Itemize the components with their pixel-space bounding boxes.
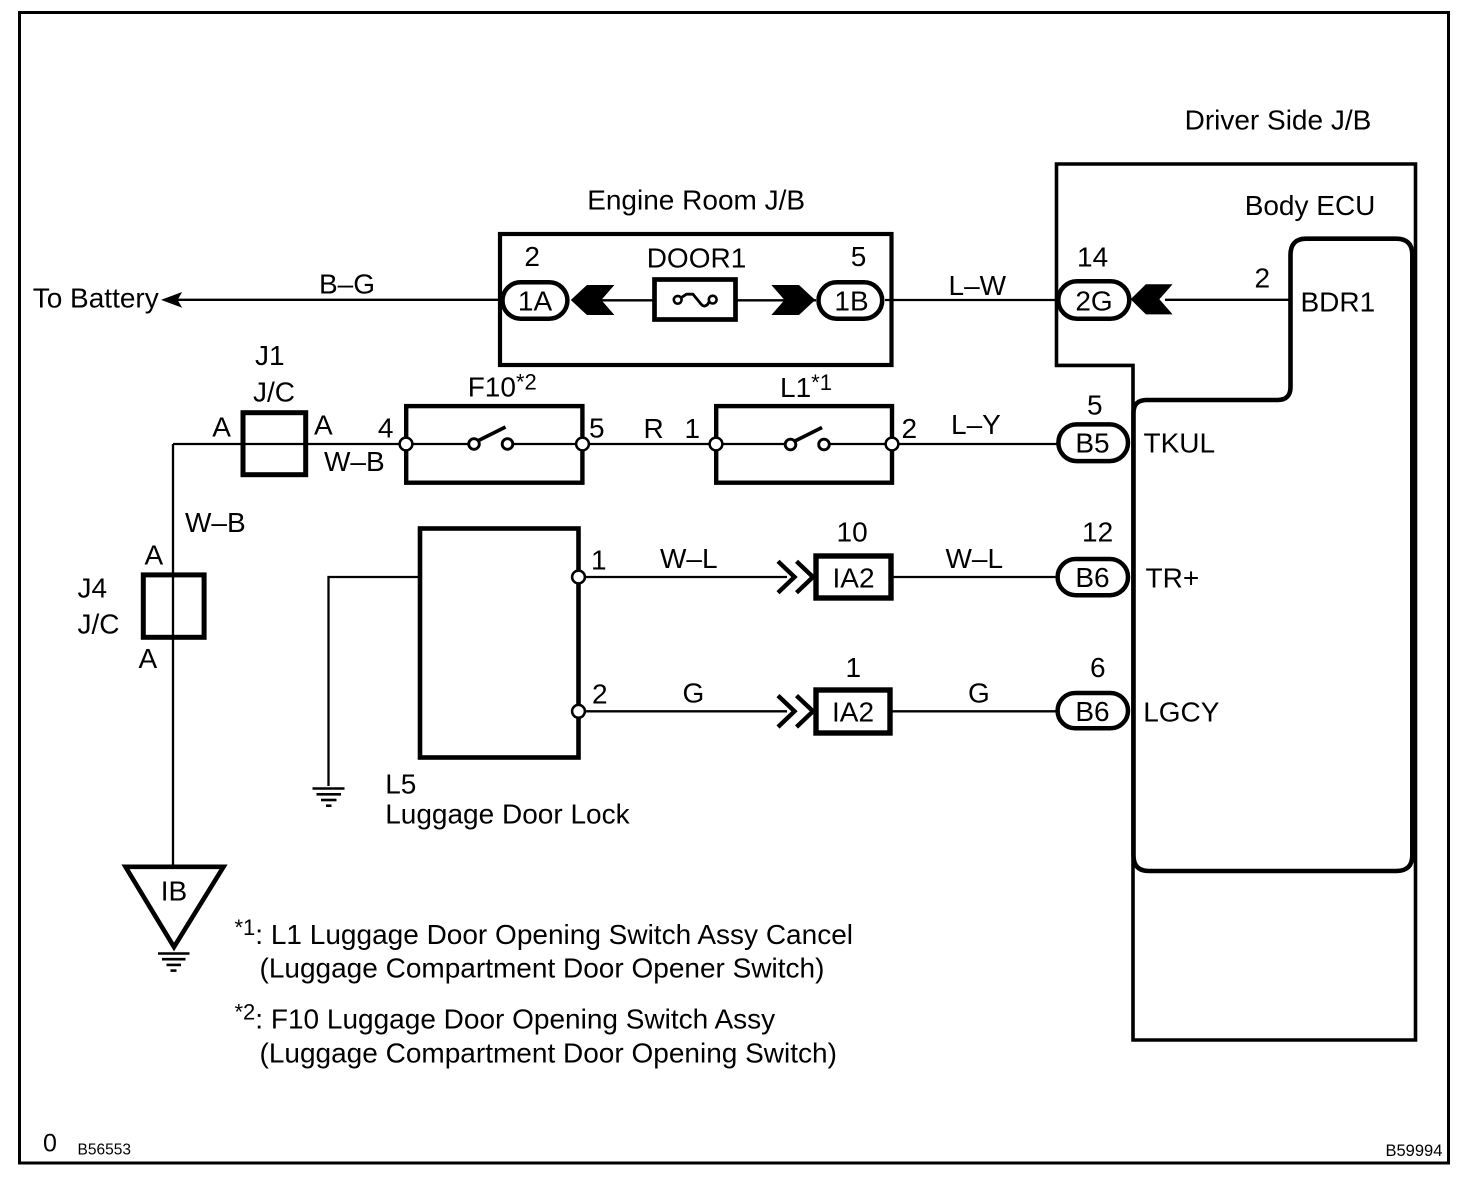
wire BDR1 to 2G [1165,299,1290,301]
wire R from F10 pin 5 to L1 pivot [508,443,791,445]
ground symbol under IB [158,954,190,971]
svg-text:2: 2 [1255,263,1271,294]
oval connector 1B [819,282,883,318]
Driver Side J/B box [1057,164,1416,1040]
node 2 on L1 [886,438,899,451]
svg-text:A: A [139,643,158,674]
connector IA2 box row 1 [816,556,891,598]
svg-text:IB: IB [161,876,187,907]
svg-text:L–W: L–W [949,270,1007,301]
oval connector 2G [1058,281,1129,318]
wire W-L from IA2 to B6 [892,576,1058,578]
wire fuse to 1B [735,299,816,301]
svg-text:To Battery: To Battery [33,283,159,314]
svg-text:TKUL: TKUL [1144,428,1216,459]
svg-text:J1: J1 [255,340,285,371]
wire L-Y from L1 pin 2 to B5 [824,443,1058,445]
svg-text:14: 14 [1077,242,1108,273]
switch L1 box [716,406,892,483]
wire 1B to 2G L-W [885,299,1058,301]
chevron arrows row 1 [778,561,813,592]
svg-text:W–B: W–B [324,446,385,477]
svg-text:B–G: B–G [319,269,375,300]
svg-text:1: 1 [846,652,862,683]
fuse element [682,294,711,306]
switch L1 pivots and blade [785,439,796,450]
svg-text:DOOR1: DOOR1 [647,242,747,273]
svg-text:BDR1: BDR1 [1301,287,1376,318]
svg-text:5: 5 [851,241,867,272]
IB triangle ground [126,867,224,947]
ground branch wire from L5 [329,577,421,786]
junction J4 J/C box [143,575,204,637]
svg-text:IA2: IA2 [832,563,874,594]
svg-text:J4: J4 [78,572,108,603]
connector IA2 box row 2 [816,690,890,733]
svg-text:1B: 1B [834,286,868,317]
wire corner to J1 to F10 pivot [173,443,474,445]
svg-text:2G: 2G [1075,286,1112,317]
svg-text:G: G [683,678,705,709]
svg-text:A: A [145,540,164,571]
svg-text:L–Y: L–Y [951,409,1001,440]
svg-text:0: 0 [43,1130,57,1158]
svg-text:*2: F10 Luggage Door Opening S: *2: F10 Luggage Door Opening Switch Assy [235,1000,776,1035]
svg-text:Engine Room J/B: Engine Room J/B [587,185,805,216]
svg-text:J/C: J/C [78,609,120,640]
fuse DOOR1 box [655,280,736,320]
svg-text:Body ECU: Body ECU [1245,190,1376,221]
svg-text:B6: B6 [1075,562,1109,593]
L5 luggage door lock box [420,529,579,758]
svg-text:2: 2 [592,679,608,710]
wire 1A to fuse [600,299,654,301]
wire W-L from L5 pin 1 to IA2 [579,576,788,578]
chevron arrows row 2 [778,696,813,727]
svg-text:(Luggage Compartment Door Open: (Luggage Compartment Door Opening Switch… [260,1038,837,1069]
connector arrow before 1B [771,285,815,315]
svg-text:G: G [968,678,990,709]
svg-text:4: 4 [378,413,394,444]
svg-text:10: 10 [837,517,868,548]
Body ECU outline U1 [1134,239,1413,871]
node 4 on F10 [400,438,413,451]
svg-text:LGCY: LGCY [1143,697,1220,728]
svg-text:*1: L1 Luggage Door Opening Sw: *1: L1 Luggage Door Opening Switch Assy … [235,915,854,950]
svg-text:1: 1 [685,413,701,444]
oval connector B5 [1058,424,1128,461]
svg-text:B59994: B59994 [1386,1142,1443,1160]
node 2 on L5 [572,705,585,718]
connector arrow at 2G [1131,284,1173,314]
node 1 on L5 [572,571,585,584]
switch F10 pivots and blade [469,439,480,450]
oval connector B6 row 1 [1058,559,1128,595]
junction J1 J/C box [243,413,306,475]
svg-text:W–L: W–L [660,543,718,574]
node 1 on L1 [710,438,723,451]
ground symbol at L5 [313,789,345,806]
svg-text:W–L: W–L [946,543,1004,574]
svg-text:J/C: J/C [253,377,295,408]
svg-text:B5: B5 [1075,428,1109,459]
oval connector 1A [503,282,568,318]
svg-text:(Luggage Compartment Door Open: (Luggage Compartment Door Opener Switch) [260,953,825,984]
svg-text:R: R [644,413,664,444]
svg-text:2: 2 [902,413,918,444]
svg-text:B6: B6 [1075,696,1109,727]
svg-text:12: 12 [1082,517,1113,548]
svg-text:2: 2 [524,241,540,272]
connector arrow at 1A [571,285,615,315]
oval connector B6 row 2 [1058,693,1128,728]
svg-text:1A: 1A [518,286,553,317]
svg-text:TR+: TR+ [1146,563,1200,594]
Engine Room J/B box [500,234,892,365]
svg-text:L5: L5 [385,769,416,800]
arrowhead To Battery [163,293,182,307]
svg-text:Luggage Door Lock: Luggage Door Lock [385,799,630,830]
svg-text:6: 6 [1090,652,1106,683]
svg-text:IA2: IA2 [832,697,874,728]
svg-text:A: A [314,410,333,441]
node 5 on F10 [576,438,589,451]
svg-text:Driver Side J/B: Driver Side J/B [1185,105,1372,136]
wire G from L5 pin 2 to IA2 [579,710,788,712]
wire To Battery B-G [174,299,504,301]
svg-text:5: 5 [1087,390,1103,421]
svg-text:5: 5 [589,413,605,444]
vertical W-B wire [172,444,174,866]
wire G from IA2 to B6 [890,710,1058,712]
svg-text:1: 1 [591,545,607,576]
switch F10 box [406,406,582,483]
svg-text:A: A [212,412,231,443]
svg-text:W–B: W–B [185,507,246,538]
svg-text:B56553: B56553 [78,1142,131,1159]
